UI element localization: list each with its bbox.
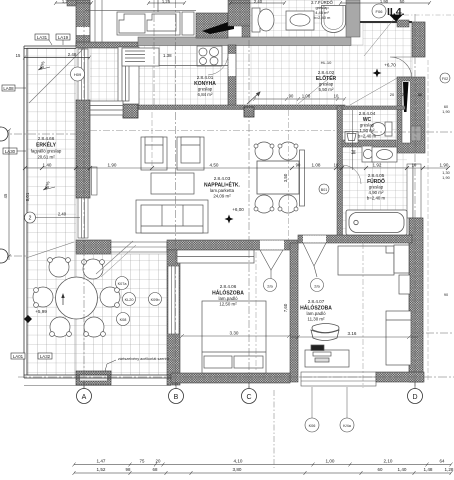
svg-text:4,90 m²: 4,90 m² bbox=[369, 190, 384, 195]
floor kitchen tiles bbox=[90, 45, 228, 107]
svg-text:20,61 m²: 20,61 m² bbox=[37, 155, 55, 160]
wall hall nook top bbox=[360, 21, 412, 23]
bedroom07 bed bbox=[386, 311, 411, 365]
wall kitchen/hall divider bbox=[228, 45, 236, 107]
svg-text:1.90: 1.90 bbox=[108, 163, 117, 168]
svg-text:1.92: 1.92 bbox=[373, 163, 382, 168]
svg-text:60: 60 bbox=[378, 467, 383, 472]
room label neighbour FURDO bbox=[311, 0, 334, 20]
window bedroom07 south bbox=[301, 372, 376, 386]
wall living south-west block bbox=[76, 240, 111, 254]
wall neighbour bath left bbox=[228, 0, 250, 26]
svg-text:1,47: 1,47 bbox=[97, 459, 106, 464]
svg-text:64: 64 bbox=[440, 459, 445, 464]
top dim fragments bbox=[54, 1, 431, 5]
bedroom07 nightstand bbox=[399, 275, 410, 294]
svg-text:KL20: KL20 bbox=[125, 298, 134, 302]
sideboard bbox=[300, 150, 305, 206]
LA box left 2 bbox=[3, 148, 17, 154]
wall bedroom06 west bbox=[167, 250, 180, 385]
svg-text:4,10: 4,10 bbox=[234, 459, 243, 464]
svg-text:1,90: 1,90 bbox=[442, 110, 449, 114]
svg-text:90: 90 bbox=[296, 163, 301, 168]
north arrow on table bbox=[62, 295, 64, 305]
dim bedroom06 bbox=[180, 334, 291, 338]
svg-text:F02: F02 bbox=[442, 77, 448, 81]
bottom dimension row 2 bbox=[73, 471, 453, 475]
grid bubble D bbox=[414, 382, 416, 389]
svg-text:2: 2 bbox=[29, 216, 32, 222]
svg-text:1,90: 1,90 bbox=[380, 0, 389, 4]
bottom dimension row 1 bbox=[73, 463, 453, 467]
svg-text:B01: B01 bbox=[321, 188, 327, 192]
section line kitchen bbox=[153, 0, 155, 108]
svg-text:zártszelvény acélkorlát szerin: zártszelvény acélkorlát szerint bbox=[118, 357, 170, 361]
svg-text:8,01: 8,01 bbox=[25, 192, 30, 201]
hall diagonal bbox=[298, 74, 334, 104]
window living west (sliding door) bbox=[78, 198, 88, 238]
centerline bedroom06 bbox=[255, 252, 257, 372]
outer dashed line right bbox=[427, 60, 429, 380]
svg-text:A: A bbox=[82, 394, 87, 401]
svg-text:LA32: LA32 bbox=[40, 354, 51, 359]
shaft box with black wedge bbox=[196, 13, 228, 38]
grid line A vertical bbox=[83, 20, 85, 389]
svg-text:50: 50 bbox=[400, 0, 405, 4]
svg-text:2,10: 2,10 bbox=[384, 459, 393, 464]
wall bath/bedroom07 bbox=[298, 235, 412, 243]
svg-text:LA19: LA19 bbox=[58, 35, 69, 40]
kitchen counter low bbox=[90, 101, 123, 115]
shaft centerline bbox=[415, 77, 417, 153]
svg-text:20: 20 bbox=[402, 92, 407, 97]
svg-text:D: D bbox=[412, 394, 417, 401]
dim bedroom07 bbox=[290, 335, 418, 339]
svg-text:1.90: 1.90 bbox=[440, 163, 449, 168]
svg-text:K07a: K07a bbox=[118, 282, 128, 286]
bedroom06 bed bbox=[202, 301, 266, 373]
centerline window living bbox=[151, 112, 153, 168]
wall top-left column bbox=[76, 0, 90, 46]
svg-text:2.8.4.06: 2.8.4.06 bbox=[220, 284, 237, 289]
svg-text:LA30: LA30 bbox=[5, 149, 16, 154]
svg-text:M: M bbox=[352, 150, 358, 154]
svg-text:HL.10: HL.10 bbox=[321, 60, 332, 65]
svg-text:3,50: 3,50 bbox=[283, 173, 288, 182]
living armchair 2 bbox=[177, 137, 204, 170]
wall south stub left bbox=[76, 371, 111, 385]
grid bubble A bbox=[83, 382, 85, 389]
grid bubble B bbox=[175, 382, 177, 389]
svg-text:2.8.4.02: 2.8.4.02 bbox=[318, 70, 335, 75]
grid row line right mid bbox=[412, 332, 454, 334]
svg-text:6,84 m²: 6,84 m² bbox=[198, 92, 213, 97]
bedroom06 wardrobe bbox=[177, 250, 254, 263]
grid row line right wc bbox=[342, 131, 454, 133]
partition band kitchen/living bbox=[126, 105, 345, 110]
room label KONYHA bbox=[194, 75, 216, 97]
wall block right with shaft bbox=[397, 77, 425, 153]
svg-text:20: 20 bbox=[390, 92, 395, 97]
svg-text:3.16: 3.16 bbox=[348, 331, 357, 336]
tag circle F06 bbox=[372, 4, 386, 18]
svg-text:LA31: LA31 bbox=[37, 35, 48, 40]
room label ELOTER bbox=[316, 70, 337, 92]
LA box left bbox=[2, 85, 15, 91]
svg-text:7,60: 7,60 bbox=[283, 303, 288, 312]
centerline bedroom07 bbox=[362, 243, 364, 388]
living coffee table bbox=[151, 173, 194, 194]
svg-text:K06: K06 bbox=[309, 424, 316, 428]
dining table bbox=[257, 161, 299, 194]
neighbour toilet bbox=[252, 8, 274, 32]
circle tag 2a left bbox=[264, 279, 277, 292]
wall right of hall (entry side) bbox=[412, 22, 425, 57]
svg-text:K09b: K09b bbox=[151, 298, 160, 302]
bedroom07 pouf sketch bbox=[311, 324, 339, 341]
wc handbasin bbox=[345, 132, 358, 144]
kitchen tall cabinet bbox=[118, 47, 139, 104]
door arrow hall bbox=[247, 92, 260, 104]
svg-text:b=2,40 m: b=2,40 m bbox=[367, 196, 386, 201]
bedroom07 desk bbox=[305, 345, 349, 367]
svg-text:F06: F06 bbox=[376, 9, 384, 14]
svg-text:1.08: 1.08 bbox=[312, 163, 321, 168]
svg-text:B: B bbox=[174, 394, 179, 401]
svg-text:LA08: LA08 bbox=[3, 86, 14, 91]
svg-text:45: 45 bbox=[3, 193, 8, 198]
floor hall ELOTER tiles bbox=[236, 22, 412, 106]
window right wall of bath bbox=[407, 164, 421, 218]
neighbour room lines top-left bbox=[95, 0, 102, 42]
tag circles terrace K group bbox=[116, 277, 129, 290]
terrace round table bbox=[56, 277, 98, 319]
column C at partition bbox=[244, 107, 254, 117]
neighbour shower bbox=[322, 6, 346, 33]
door swing kitchen bbox=[208, 54, 228, 75]
sliding leaf living west bbox=[92, 167, 98, 195]
grid row line bottom bbox=[18, 376, 454, 378]
section dash bottom bbox=[273, 390, 275, 468]
svg-text:1,90: 1,90 bbox=[442, 176, 449, 180]
svg-text:50: 50 bbox=[418, 92, 423, 97]
terrace left railing bbox=[24, 46, 76, 378]
svg-text:1,28: 1,28 bbox=[445, 467, 454, 472]
svg-text:2.8.4.01: 2.8.4.01 bbox=[197, 75, 214, 80]
LA boxes bottom bbox=[11, 353, 52, 359]
grid bubble C bbox=[248, 382, 250, 389]
floor neighbour bath tiles bbox=[250, 0, 341, 37]
svg-text:15: 15 bbox=[16, 53, 21, 58]
room label HALOSZOBA 06 bbox=[212, 284, 244, 307]
left vertical dim bbox=[7, 129, 11, 261]
kitchen stove bbox=[197, 46, 222, 66]
svg-text:b=2,40 m: b=2,40 m bbox=[314, 15, 331, 20]
tag circle window 2 bbox=[25, 212, 36, 223]
svg-text:98: 98 bbox=[126, 467, 131, 472]
tag circle right bbox=[440, 73, 450, 83]
svg-text:1.40: 1.40 bbox=[43, 163, 52, 168]
svg-text:lam.parketta: lam.parketta bbox=[210, 188, 235, 193]
svg-text:2.8.4.07: 2.8.4.07 bbox=[308, 299, 325, 304]
svg-text:12,50 m²: 12,50 m² bbox=[219, 302, 237, 307]
grid row line living bbox=[90, 130, 340, 132]
dining chairs bbox=[254, 142, 298, 213]
svg-text:90: 90 bbox=[289, 94, 294, 99]
svg-text:2.48: 2.48 bbox=[68, 52, 77, 57]
grid line B vertical bbox=[175, 0, 177, 389]
svg-text:lam.padló: lam.padló bbox=[218, 296, 238, 301]
svg-text:b=2,40 m: b=2,40 m bbox=[358, 134, 377, 139]
slab edge line bottom bbox=[24, 385, 171, 387]
column at partition left bbox=[123, 104, 138, 118]
living sofa bbox=[136, 200, 208, 233]
svg-text:24,09 m²: 24,09 m² bbox=[213, 194, 231, 199]
dim terrace top line bbox=[23, 56, 91, 60]
entry door swing bbox=[390, 57, 412, 79]
floor bathroom tiles bbox=[342, 147, 407, 235]
wall south right piece bbox=[376, 372, 424, 382]
svg-text:11,30 m²: 11,30 m² bbox=[307, 317, 325, 322]
window kitchen west bbox=[78, 49, 88, 100]
door swing V bedroom06 bbox=[260, 250, 283, 279]
grid line C vertical bbox=[248, 40, 250, 389]
terrace diagonal top bbox=[29, 49, 83, 103]
window bedroom06 west bbox=[168, 266, 179, 334]
room label ERKELY bbox=[31, 136, 62, 160]
terrace diagonal bottom bbox=[96, 241, 133, 274]
svg-text:75: 75 bbox=[140, 459, 145, 464]
LA boxes top bbox=[35, 34, 70, 40]
bath sink bbox=[372, 147, 397, 162]
svg-text:1,40: 1,40 bbox=[398, 467, 407, 472]
svg-text:1.38: 1.38 bbox=[163, 53, 172, 58]
wall right outer lower bbox=[409, 218, 423, 382]
shaft sliver black bbox=[403, 82, 409, 112]
tag circle living small bbox=[319, 184, 329, 194]
svg-text:3,80: 3,80 bbox=[233, 467, 242, 472]
centerline dining wall bbox=[288, 110, 290, 240]
floor terrace ERKELY tiles bbox=[27, 48, 171, 375]
wall top horizontal hatched bbox=[76, 42, 138, 48]
door swing bath bbox=[342, 165, 361, 184]
dimension chain y168 bbox=[23, 166, 450, 170]
svg-text:4.50: 4.50 bbox=[210, 163, 219, 168]
svg-text:C: C bbox=[246, 394, 251, 401]
svg-text:ERKÉLY: ERKÉLY bbox=[36, 141, 56, 149]
wall top gray band bbox=[138, 37, 351, 46]
room label NAPPALI bbox=[204, 176, 240, 199]
door swing V bedroom07 bbox=[303, 243, 326, 277]
svg-text:2.8.4.03: 2.8.4.03 bbox=[214, 176, 231, 181]
living armchair 1 bbox=[141, 137, 167, 170]
tag circle H09 terrace bbox=[71, 67, 85, 81]
tag circles window bottom07 bbox=[311, 387, 313, 418]
shaft slot white bbox=[402, 81, 411, 143]
bathtub bbox=[346, 210, 407, 235]
terrace bottom edge bbox=[24, 375, 171, 378]
svg-text:K/4a: K/4a bbox=[343, 424, 352, 428]
wall living/bedrooms south bbox=[167, 240, 298, 250]
wall neighbour bath right stub bbox=[346, 0, 360, 37]
bedroom07 side cabinet bbox=[394, 245, 409, 273]
svg-text:3.30: 3.30 bbox=[230, 331, 239, 336]
wall stub top far-left bbox=[67, 0, 76, 6]
svg-text:fagyálló greslap: fagyálló greslap bbox=[31, 149, 62, 154]
washing machine M bbox=[362, 146, 375, 162]
svg-text:+6,70: +6,70 bbox=[384, 63, 396, 68]
terrace chairs bbox=[33, 257, 120, 337]
svg-text:10: 10 bbox=[412, 163, 417, 168]
wall wc top thin bbox=[342, 106, 405, 110]
wall wc bottom bbox=[342, 140, 396, 147]
svg-text:H09: H09 bbox=[74, 72, 82, 77]
grid row line y134 bbox=[0, 133, 88, 135]
svg-text:2.8.4.66: 2.8.4.66 bbox=[38, 136, 55, 141]
svg-text:2/a: 2/a bbox=[314, 284, 320, 289]
svg-text:10: 10 bbox=[334, 94, 339, 99]
wall gray block right bbox=[411, 126, 421, 141]
left partial bubbles bbox=[0, 249, 8, 263]
svg-text:2,40: 2,40 bbox=[58, 212, 67, 217]
room label HALOSZOBA 07 bbox=[300, 299, 332, 322]
grid line D vertical bbox=[414, 14, 416, 389]
svg-text:1,25: 1,25 bbox=[162, 0, 171, 4]
svg-text:68: 68 bbox=[153, 467, 158, 472]
svg-text:greslap: greslap bbox=[198, 87, 213, 92]
svg-text:greslap: greslap bbox=[319, 82, 334, 87]
svg-text:+5,99: +5,99 bbox=[35, 309, 47, 314]
bedroom07 wardrobe bbox=[338, 246, 394, 275]
wall bedroom06/07 divider bbox=[290, 243, 298, 382]
svg-text:60: 60 bbox=[444, 105, 448, 109]
wall terrace/living (west wall of living) bbox=[76, 100, 90, 198]
svg-text:90: 90 bbox=[444, 293, 448, 297]
svg-text:1,30: 1,30 bbox=[442, 171, 449, 175]
wall south under bedroom06 bbox=[171, 373, 290, 383]
wc toilet bbox=[371, 122, 393, 136]
svg-text:1,48: 1,48 bbox=[424, 467, 433, 472]
svg-text:2.8.4.05: 2.8.4.05 bbox=[368, 173, 385, 178]
window living south (sliding to terrace) bbox=[111, 242, 167, 252]
terrace diagonal corner bbox=[26, 242, 74, 258]
kitchen counter edge bbox=[159, 65, 228, 67]
svg-text:K08: K08 bbox=[120, 318, 127, 322]
svg-text:1,50 m²: 1,50 m² bbox=[360, 128, 375, 133]
kitchen sink unit bbox=[122, 48, 159, 66]
svg-text:2/a: 2/a bbox=[267, 284, 273, 289]
svg-text:2,40: 2,40 bbox=[254, 0, 263, 4]
svg-text:1,52: 1,52 bbox=[97, 467, 106, 472]
room label WC bbox=[358, 111, 377, 139]
room label FURDO bbox=[367, 173, 386, 201]
svg-text:10: 10 bbox=[334, 163, 339, 168]
svg-text:+6,00: +6,00 bbox=[232, 207, 244, 212]
circle tag 2a right bbox=[311, 279, 324, 292]
svg-text:LA01: LA01 bbox=[13, 354, 24, 359]
svg-text:greslap: greslap bbox=[360, 123, 375, 128]
floor WC tiles bbox=[342, 110, 411, 140]
svg-text:1,00: 1,00 bbox=[326, 459, 335, 464]
wall wc/bath left bbox=[337, 106, 343, 240]
dim chain y97 hall bbox=[253, 97, 346, 101]
neighbour sink bbox=[286, 11, 314, 30]
svg-text:2.8.4.04: 2.8.4.04 bbox=[359, 111, 376, 116]
diamond marker terrace bbox=[24, 315, 32, 323]
hall diagonal 2 bbox=[350, 77, 399, 105]
svg-text:5,50 m²: 5,50 m² bbox=[319, 87, 334, 92]
svg-text:1.08: 1.08 bbox=[302, 94, 311, 99]
svg-text:lam.padló: lam.padló bbox=[306, 311, 326, 316]
grid row line terrace2 bbox=[0, 255, 26, 257]
svg-text:20: 20 bbox=[156, 459, 161, 464]
svg-text:greslap: greslap bbox=[369, 185, 384, 190]
star marker hall bbox=[373, 69, 382, 78]
neighbour sofa top bbox=[85, 0, 196, 35]
